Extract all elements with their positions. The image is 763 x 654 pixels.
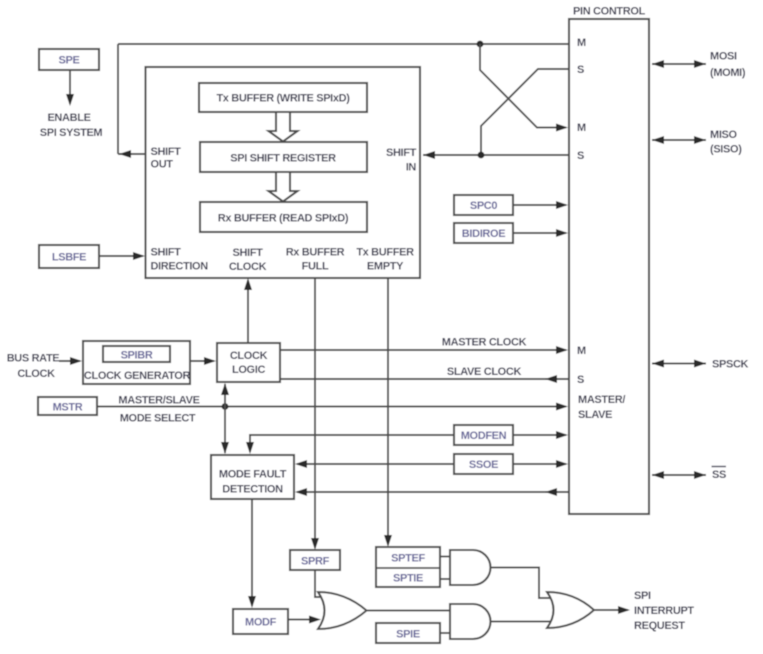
svg-text:M: M bbox=[577, 122, 586, 134]
svg-text:SPI SYSTEM: SPI SYSTEM bbox=[40, 127, 103, 139]
box SPRF bbox=[290, 550, 340, 570]
svg-text:DIRECTION: DIRECTION bbox=[151, 261, 209, 273]
svg-text:Tx BUFFER (WRITE SPIxD): Tx BUFFER (WRITE SPIxD) bbox=[216, 93, 350, 105]
svg-text:CLOCK: CLOCK bbox=[230, 350, 268, 362]
label bus rate clock bbox=[7, 353, 60, 381]
box clock logic bbox=[217, 343, 280, 382]
box Tx buffer bbox=[199, 83, 367, 112]
svg-text:MASTER CLOCK: MASTER CLOCK bbox=[442, 337, 527, 349]
wire ssoe arrow to pin control bbox=[513, 460, 568, 468]
svg-text:SLAVE CLOCK: SLAVE CLOCK bbox=[447, 366, 522, 378]
svg-text:LOGIC: LOGIC bbox=[232, 364, 265, 376]
pin M top bbox=[577, 37, 586, 49]
svg-text:SPIE: SPIE bbox=[396, 629, 420, 641]
box SSOE bbox=[454, 454, 513, 474]
svg-text:SPRF: SPRF bbox=[301, 556, 330, 568]
svg-text:OUT: OUT bbox=[151, 159, 174, 171]
wire spc0 arrow bbox=[513, 201, 568, 209]
svg-text:MODE SELECT: MODE SELECT bbox=[120, 413, 196, 425]
wire ss path to mode fault bbox=[295, 488, 569, 496]
wire SS-bar double arrow bbox=[652, 467, 726, 482]
label rx buffer full bbox=[286, 247, 345, 273]
svg-text:CLOCK GENERATOR: CLOCK GENERATOR bbox=[84, 370, 191, 382]
svg-text:S: S bbox=[577, 64, 584, 76]
box SPE bbox=[39, 49, 99, 70]
svg-text:BIDIROE: BIDIROE bbox=[462, 228, 505, 240]
svg-text:Rx BUFFER: Rx BUFFER bbox=[286, 247, 345, 259]
box SPI shift register bbox=[200, 142, 367, 172]
node junction shift-in bbox=[478, 152, 485, 159]
label enable spi system bbox=[40, 112, 103, 139]
wire rx buffer full vertical bbox=[311, 278, 319, 550]
label shift clock bbox=[229, 247, 267, 273]
wire clock logic to mode fault vertical double arrow bbox=[221, 383, 229, 454]
svg-text:DETECTION: DETECTION bbox=[222, 484, 283, 496]
pin S mid bbox=[577, 150, 584, 162]
svg-text:Tx BUFFER: Tx BUFFER bbox=[356, 247, 414, 259]
svg-text:SPTEF: SPTEF bbox=[391, 553, 425, 565]
pin S top bbox=[577, 64, 584, 76]
svg-text:SPI SHIFT REGISTER: SPI SHIFT REGISTER bbox=[230, 153, 336, 165]
and-gate AND1 bbox=[450, 550, 490, 585]
wire modf to or1 bbox=[288, 616, 321, 624]
wire crossover down-right to M pin bbox=[480, 44, 568, 132]
wire shift-out top horizontal bbox=[118, 43, 569, 45]
svg-text:SLAVE: SLAVE bbox=[578, 409, 612, 421]
svg-text:SHIFT: SHIFT bbox=[151, 247, 182, 259]
wire sptie stub bbox=[440, 578, 450, 580]
label tx buffer empty bbox=[356, 247, 414, 273]
or-gate OR2 bbox=[547, 592, 594, 628]
svg-text:SPC0: SPC0 bbox=[470, 200, 498, 212]
svg-text:CLOCK: CLOCK bbox=[17, 368, 55, 380]
and-gate AND2 bbox=[450, 604, 491, 639]
svg-text:INTERRUPT: INTERRUPT bbox=[634, 605, 694, 617]
svg-text:IN: IN bbox=[406, 162, 417, 174]
node junction mode select bbox=[222, 403, 229, 410]
svg-text:Rx BUFFER (READ SPIxD): Rx BUFFER (READ SPIxD) bbox=[218, 213, 349, 225]
svg-text:MODE FAULT: MODE FAULT bbox=[219, 469, 287, 481]
svg-text:EMPTY: EMPTY bbox=[367, 261, 404, 273]
box SPC0 bbox=[454, 195, 513, 215]
svg-text:MODF: MODF bbox=[245, 617, 277, 629]
svg-text:(MOMI): (MOMI) bbox=[710, 67, 746, 79]
svg-text:FULL: FULL bbox=[302, 261, 329, 273]
node junction top bbox=[477, 41, 484, 48]
wire shift-out left vertical bbox=[117, 44, 119, 154]
svg-text:SPE: SPE bbox=[59, 55, 80, 67]
svg-text:SPIBR: SPIBR bbox=[121, 350, 153, 362]
box Rx buffer bbox=[200, 202, 367, 232]
wire SPSCK double arrow bbox=[652, 359, 749, 371]
wire and2 to or2 bbox=[491, 621, 553, 623]
wire master clock bbox=[280, 337, 568, 355]
wire sprf to or1 bbox=[315, 570, 322, 597]
wire mode select bbox=[97, 395, 568, 425]
box MODFEN bbox=[454, 425, 513, 445]
box clock generator bbox=[83, 341, 190, 384]
label shift direction bbox=[151, 247, 209, 273]
label shift out bbox=[151, 146, 182, 171]
svg-text:PIN CONTROL: PIN CONTROL bbox=[573, 6, 646, 18]
svg-text:MASTER/SLAVE: MASTER/SLAVE bbox=[118, 395, 199, 407]
wire bidiroe arrow bbox=[513, 229, 568, 237]
svg-text:SSOE: SSOE bbox=[469, 459, 498, 471]
box LSBFE bbox=[39, 245, 99, 268]
wire clockgen to clock logic bbox=[190, 357, 216, 365]
svg-text:SPTIE: SPTIE bbox=[393, 573, 423, 585]
or-gate OR1 bbox=[318, 592, 367, 629]
box MODF bbox=[233, 609, 288, 634]
svg-text:MISO: MISO bbox=[710, 129, 738, 141]
wire shift clock vertical bbox=[244, 278, 252, 343]
pin S clock bbox=[577, 374, 584, 386]
svg-text:S: S bbox=[577, 374, 584, 386]
wire tx buffer empty vertical bbox=[384, 278, 392, 547]
wire shift out horizontal into vertical bbox=[118, 150, 146, 158]
pin M clock bbox=[577, 345, 586, 357]
pin M mid bbox=[577, 122, 586, 134]
label master/slave inside pin control bbox=[578, 394, 625, 421]
wire and1 to or2 bbox=[491, 568, 552, 599]
wire ssoe left lead to mode fault bbox=[295, 460, 454, 468]
wire slave clock bbox=[280, 366, 569, 383]
svg-text:CLOCK: CLOCK bbox=[229, 261, 267, 273]
svg-text:(SISO): (SISO) bbox=[710, 144, 742, 156]
block arrow shift to rx bbox=[269, 172, 298, 202]
svg-text:MOSI: MOSI bbox=[710, 51, 737, 63]
svg-text:SS: SS bbox=[712, 469, 726, 481]
svg-text:BUS RATE: BUS RATE bbox=[7, 353, 60, 365]
wire spi interrupt request bbox=[594, 590, 694, 632]
wire modfen left lead down to mode fault bbox=[246, 435, 454, 454]
box SPIE bbox=[376, 623, 440, 643]
wire or1 to and2 bbox=[367, 610, 451, 612]
wire bus rate arrow bbox=[59, 357, 82, 365]
box BIDIROE bbox=[454, 223, 513, 243]
svg-text:MODFEN: MODFEN bbox=[461, 430, 507, 442]
svg-text:MSTR: MSTR bbox=[53, 402, 83, 414]
wire MISO double arrow bbox=[652, 129, 742, 156]
wire sptef stub bbox=[440, 556, 450, 558]
wire mode fault to modf bbox=[248, 499, 256, 608]
svg-text:ENABLE: ENABLE bbox=[47, 112, 90, 124]
box SPTEF SPTIE bbox=[376, 547, 440, 587]
wire spie stub bbox=[440, 632, 450, 634]
wire modfen arrow to pin control bbox=[513, 431, 568, 439]
svg-text:SHIFT: SHIFT bbox=[151, 146, 182, 158]
svg-text:SHIFT: SHIFT bbox=[232, 247, 263, 259]
svg-text:REQUEST: REQUEST bbox=[634, 620, 685, 632]
svg-text:M: M bbox=[577, 37, 586, 49]
wire SPE enable arrow bbox=[66, 70, 74, 106]
svg-text:SPSCK: SPSCK bbox=[712, 359, 749, 371]
svg-text:SHIFT: SHIFT bbox=[386, 147, 417, 159]
box pin control bbox=[569, 6, 649, 515]
block arrow tx to shift bbox=[269, 112, 298, 142]
box shift register group bbox=[146, 67, 421, 278]
svg-text:MASTER/: MASTER/ bbox=[578, 394, 625, 406]
svg-text:LSBFE: LSBFE bbox=[52, 252, 86, 264]
svg-text:SPI: SPI bbox=[634, 590, 651, 602]
svg-text:M: M bbox=[577, 345, 586, 357]
wire crossover S-top down-left bbox=[481, 69, 569, 155]
wire lsbfe arrow bbox=[99, 252, 145, 260]
box mode fault detection bbox=[211, 455, 294, 499]
wire shift in bbox=[423, 151, 569, 159]
svg-text:S: S bbox=[577, 150, 584, 162]
label shift in bbox=[386, 147, 417, 174]
wire MOSI double arrow bbox=[652, 51, 746, 80]
box MSTR bbox=[38, 397, 97, 415]
